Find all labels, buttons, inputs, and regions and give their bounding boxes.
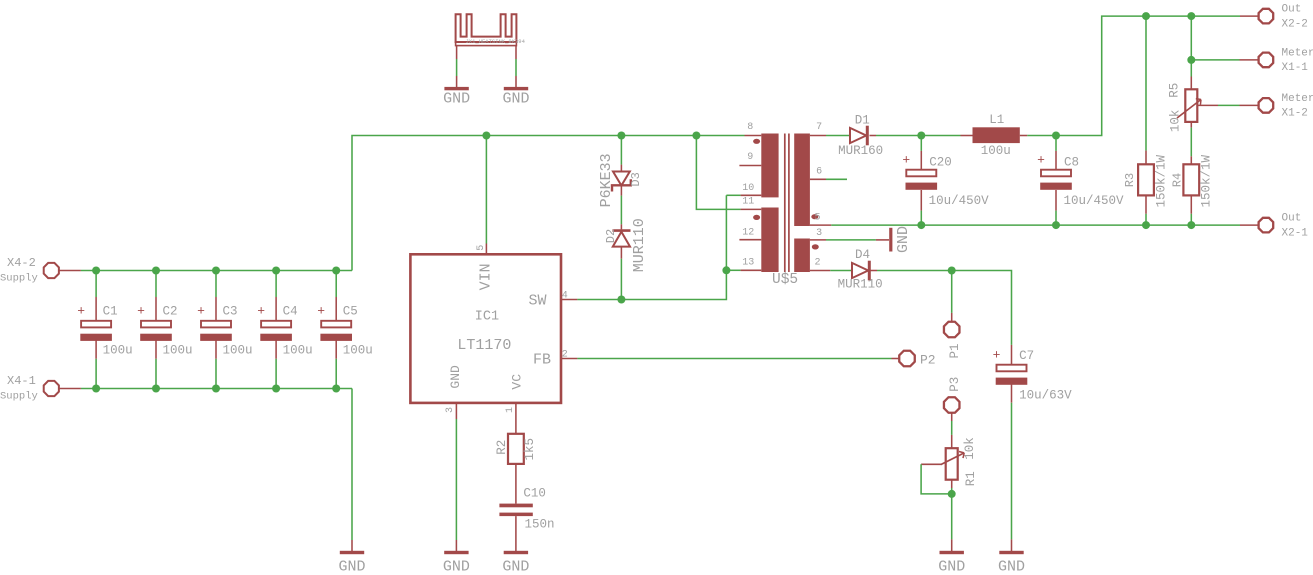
wire supply bottom to ground: [351, 389, 353, 552]
svg-text:R3: R3: [1123, 173, 1137, 187]
wire X4-2 pad stub: [59, 270, 81, 272]
wire C1 bottom lead: [95, 339, 97, 388]
connector pad X1-2: [1259, 93, 1313, 120]
svg-text:12: 12: [742, 228, 754, 239]
svg-text:L1: L1: [989, 113, 1004, 127]
junction C3 bottom: [212, 385, 220, 393]
svg-text:Meter: Meter: [1282, 93, 1313, 105]
wire R5 top lead: [1190, 16, 1192, 89]
diode D1 MUR160: [838, 114, 883, 158]
potentiometer R1 10k: [941, 437, 978, 486]
connector pad X2-2: [1259, 4, 1308, 31]
junction R3 bottom: [1142, 221, 1150, 229]
junction D1 C20: [917, 132, 925, 140]
svg-text:X1-2: X1-2: [1282, 108, 1308, 120]
wire heatsink right pin: [515, 46, 517, 87]
wire P3 to R1: [951, 413, 953, 448]
svg-text:1: 1: [505, 407, 516, 413]
connector pad X4-1: [0, 374, 59, 403]
wire L1 to riser: [1020, 16, 1258, 135]
wire IC1 pin 3 GND: [455, 403, 457, 551]
svg-text:9: 9: [747, 152, 753, 163]
svg-text:D3: D3: [629, 172, 643, 186]
svg-text:C2: C2: [163, 305, 178, 319]
junction C4 bottom: [272, 385, 280, 393]
svg-text:100u: 100u: [103, 344, 133, 358]
wire R3 top lead: [1145, 16, 1147, 164]
wire C3 bottom lead: [215, 339, 217, 388]
wire transformer pin 7 stub: [810, 135, 850, 137]
test pad P2: [899, 351, 935, 368]
svg-text:10u/450V: 10u/450V: [929, 194, 990, 208]
capacitor C20 10u/450V: [902, 152, 989, 208]
wire R3 bottom lead: [1145, 195, 1147, 225]
junction R4 bottom: [1187, 221, 1195, 229]
wire D2 bottom lead: [620, 247, 622, 300]
wire C5 bottom lead: [335, 339, 337, 388]
svg-text:GND: GND: [938, 558, 965, 575]
wire supply top rail: [81, 270, 352, 272]
wire IC1 pin 1 VC lead: [515, 403, 517, 434]
svg-text:MUR110: MUR110: [631, 218, 648, 272]
svg-text:X2-1: X2-1: [1282, 227, 1309, 239]
svg-text:100u: 100u: [981, 144, 1011, 158]
wire IC1 pin 5 VIN: [485, 136, 487, 255]
wire transformer pin 6 stub: [810, 178, 847, 180]
junction pin 11 riser: [692, 132, 700, 140]
svg-text:150k/1W: 150k/1W: [1155, 154, 1169, 207]
svg-text:1k5: 1k5: [523, 438, 537, 461]
svg-text:R4: R4: [1171, 173, 1185, 187]
wire bottom output rail: [831, 224, 1258, 226]
wire supply bottom rail: [81, 388, 352, 390]
wire heatsink left pin: [456, 46, 458, 87]
svg-text:C8: C8: [1064, 155, 1079, 169]
junction D2 bottom: [617, 296, 625, 304]
wire C2 top lead: [155, 271, 157, 321]
inductor L1 100u: [973, 113, 1020, 158]
svg-text:5: 5: [815, 212, 821, 223]
test pad P1: [944, 322, 962, 359]
svg-text:10u/63V: 10u/63V: [1019, 389, 1072, 403]
svg-text:X1-1: X1-1: [1282, 62, 1309, 74]
diode D2 MUR110: [604, 218, 648, 272]
wire C3 top lead: [215, 271, 217, 321]
wire D1 to L1: [870, 135, 973, 137]
svg-text:C7: C7: [1019, 349, 1034, 363]
junction C1 bottom: [92, 385, 100, 393]
svg-text:+: +: [257, 304, 265, 319]
ground GND R1: [938, 551, 965, 575]
resistor R3 150k/1W: [1123, 154, 1169, 207]
wire D4 to C7 riser: [870, 271, 1012, 365]
wire C5 top lead: [335, 271, 337, 321]
capacitor C5 100u: [317, 304, 372, 358]
wire D3-D2 middle: [620, 186, 622, 229]
wire R2 to C10: [515, 464, 517, 504]
capacitor C4 100u: [257, 304, 312, 358]
wire transformer pin 5 stub: [810, 224, 831, 226]
junction X1-1: [1187, 56, 1195, 64]
svg-text:D4: D4: [855, 248, 870, 262]
svg-text:10k: 10k: [963, 437, 977, 460]
svg-text:100u: 100u: [163, 344, 193, 358]
wire D3 top lead: [620, 136, 622, 172]
wire transformer pin 3 to ground: [810, 239, 889, 241]
svg-text:GND: GND: [895, 226, 912, 253]
wire C20 bottom lead: [920, 190, 922, 225]
svg-text:+: +: [317, 304, 325, 319]
ground GND C10: [502, 551, 529, 575]
ground GND under heatsink right pin: [502, 87, 529, 108]
svg-text:C5: C5: [343, 305, 358, 319]
ground GND IC1: [443, 551, 470, 575]
svg-text:D2: D2: [604, 229, 618, 243]
wire R1 bottom to ground: [951, 480, 953, 551]
junction D4 P1: [948, 267, 956, 275]
svg-text:10: 10: [742, 183, 754, 194]
svg-text:GND: GND: [338, 558, 365, 575]
svg-text:5: 5: [476, 245, 487, 251]
svg-text:GND: GND: [502, 91, 529, 108]
diode D4 MUR110: [838, 248, 883, 291]
test pad P3: [944, 377, 962, 413]
wire C8 bottom lead: [1055, 190, 1057, 225]
wire C1 top lead: [95, 271, 97, 321]
svg-text:P1: P1: [948, 343, 962, 358]
wire transformer pin 13 stub: [726, 269, 761, 271]
svg-text:+: +: [993, 347, 1001, 362]
wire C10 to ground: [515, 516, 517, 551]
svg-text:10k: 10k: [1169, 110, 1183, 133]
svg-text:X2-2: X2-2: [1282, 18, 1308, 30]
svg-text:C1: C1: [103, 305, 118, 319]
junction top rail R3: [1142, 12, 1150, 20]
svg-text:MUR160: MUR160: [838, 144, 883, 158]
svg-text:U$5: U$5: [772, 272, 798, 288]
svg-text:C3: C3: [223, 305, 238, 319]
svg-text:6: 6: [816, 166, 822, 177]
ground GND transformer pin 3: [889, 226, 912, 253]
ground GND under heatsink left pin: [443, 87, 470, 108]
connector pad X4-2: [0, 256, 59, 285]
junction D3 top: [617, 132, 625, 140]
resistor R4 150k/1W: [1171, 154, 1214, 207]
wire transformer pin 10 stub: [726, 194, 761, 196]
junction C8 bottom: [1052, 221, 1060, 229]
svg-text:10u/450V: 10u/450V: [1064, 194, 1125, 208]
wire R1 wiper loop: [921, 464, 952, 494]
wire C4 bottom lead: [275, 339, 277, 388]
svg-text:C4: C4: [283, 305, 298, 319]
svg-text:D1: D1: [855, 114, 870, 128]
junction R1 bottom: [948, 490, 956, 498]
svg-text:13: 13: [742, 257, 754, 268]
capacitor C10 150n: [499, 486, 554, 531]
svg-text:+: +: [197, 304, 205, 319]
junction C4 top: [272, 267, 280, 275]
svg-text:GND: GND: [998, 558, 1025, 575]
wire C2 bottom lead: [155, 339, 157, 388]
capacitor C8 10u/450V: [1037, 152, 1124, 208]
wire X1-1 to pad: [1191, 59, 1258, 61]
svg-text:+: +: [902, 152, 910, 167]
svg-text:Supply: Supply: [0, 273, 38, 285]
svg-text:C10: C10: [523, 486, 546, 500]
junction C5 top: [332, 267, 340, 275]
wire transformer pin 8 stub: [745, 135, 762, 137]
capacitor C1 100u: [77, 304, 132, 358]
wire transformer pin 2 stub: [810, 270, 852, 272]
wire R5 to R4: [1190, 122, 1192, 164]
svg-text:Supply: Supply: [0, 391, 38, 403]
wire R5 wiper to X1-2: [1197, 104, 1258, 106]
svg-text:Meter: Meter: [1282, 47, 1313, 59]
junction C2 bottom: [152, 385, 160, 393]
capacitor C2 100u: [137, 304, 192, 358]
connector pad X1-1: [1259, 47, 1313, 74]
svg-text:GND: GND: [502, 558, 529, 575]
transformer U$5: [742, 122, 822, 288]
capacitor C3 100u: [197, 304, 252, 358]
potentiometer R5 10k: [1167, 83, 1201, 132]
svg-text:SW: SW: [529, 293, 547, 310]
svg-text:C20: C20: [929, 155, 952, 169]
svg-text:3: 3: [445, 407, 456, 413]
wire C7 to ground: [1011, 384, 1013, 551]
svg-text:100u: 100u: [283, 344, 313, 358]
svg-text:+: +: [1037, 152, 1045, 167]
wire transformer pin 9 stub: [739, 165, 761, 167]
svg-text:11: 11: [742, 196, 754, 207]
svg-text:X4-2: X4-2: [7, 256, 36, 270]
svg-text:2: 2: [815, 257, 821, 268]
svg-text:IC1: IC1: [475, 310, 499, 325]
ground GND C7: [998, 551, 1025, 575]
wire FB net to P2: [561, 358, 899, 360]
resistor R2 1k5: [495, 434, 537, 464]
svg-text:FB: FB: [533, 352, 551, 369]
op-amp IC1 LT1170: [410, 245, 567, 413]
svg-text:8: 8: [747, 122, 753, 133]
svg-text:GND: GND: [443, 91, 470, 108]
wire C20 top lead: [920, 136, 922, 170]
connector pad X2-1: [1259, 213, 1309, 240]
wire C4 top lead: [275, 271, 277, 321]
diode D3 P6KE33: [598, 153, 643, 207]
svg-text:LT1170: LT1170: [457, 337, 511, 354]
svg-text:R2: R2: [495, 440, 509, 455]
svg-text:R5: R5: [1167, 83, 1181, 98]
svg-text:GND: GND: [448, 365, 463, 389]
svg-text:X4-1: X4-1: [7, 374, 36, 388]
svg-text:P2: P2: [920, 353, 936, 368]
svg-text:JX1_HEATSINK_8K394: JX1_HEATSINK_8K394: [466, 38, 526, 45]
wire transformer pin 12 stub: [739, 239, 761, 241]
svg-text:VC: VC: [510, 374, 525, 390]
svg-text:R1: R1: [964, 471, 978, 486]
svg-text:VIN: VIN: [478, 263, 495, 290]
wire transformer pin 11 riser: [696, 136, 761, 210]
junction C5 bottom: [332, 385, 340, 393]
svg-text:150n: 150n: [525, 518, 555, 532]
svg-text:100u: 100u: [343, 344, 373, 358]
junction top rail R5: [1187, 12, 1195, 20]
svg-text:Out: Out: [1282, 213, 1302, 225]
svg-text:150k/1W: 150k/1W: [1200, 154, 1214, 207]
svg-text:P3: P3: [948, 377, 962, 392]
svg-text:+: +: [77, 304, 85, 319]
wire R4 bottom lead: [1190, 195, 1192, 225]
wire X4-1 pad stub: [59, 388, 81, 390]
svg-text:MUR110: MUR110: [838, 277, 883, 291]
heatsink JX1: [456, 14, 526, 45]
svg-text:7: 7: [816, 122, 822, 133]
wire P1 lead: [951, 271, 953, 322]
ground GND supply: [338, 551, 365, 575]
wire SW net: [561, 195, 726, 299]
wire C8 top lead: [1055, 136, 1057, 170]
junction C3 top: [212, 267, 220, 275]
wire VIN riser to top line: [352, 136, 745, 271]
junction VIN pin 5: [482, 132, 490, 140]
svg-text:Out: Out: [1282, 4, 1302, 16]
junction C20 bottom: [917, 221, 925, 229]
capacitor C7 10u/63V: [993, 347, 1073, 402]
svg-text:GND: GND: [443, 558, 470, 575]
svg-text:100u: 100u: [223, 344, 253, 358]
junction SW pin13: [722, 266, 730, 274]
junction L1 C8: [1052, 132, 1060, 140]
junction C2 top: [152, 267, 160, 275]
svg-text:3: 3: [816, 228, 822, 239]
svg-text:P6KE33: P6KE33: [598, 153, 615, 207]
svg-text:+: +: [137, 304, 145, 319]
junction C1 top: [92, 267, 100, 275]
